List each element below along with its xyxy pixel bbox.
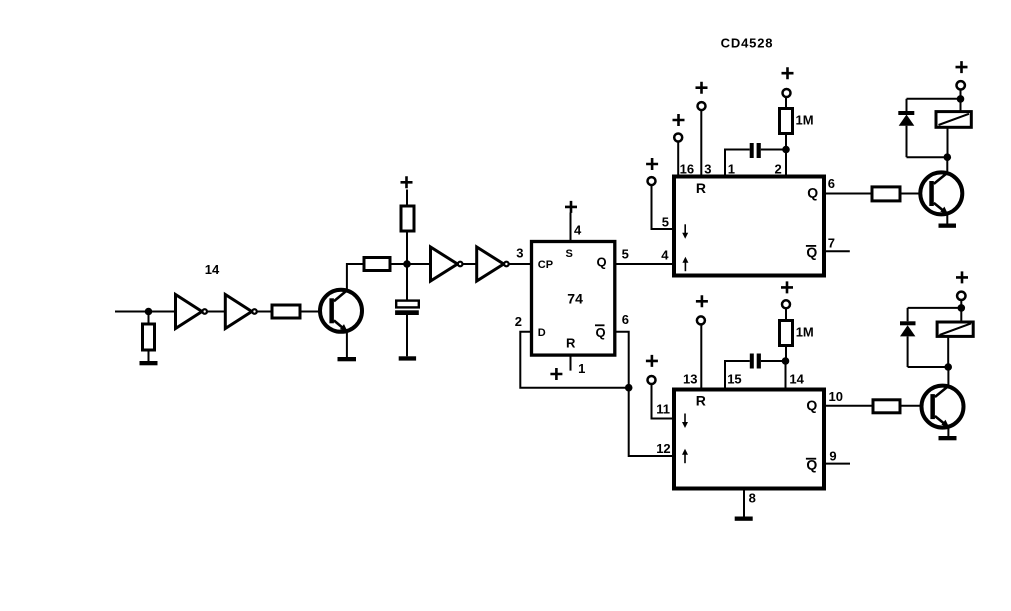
ground GND3 [399, 356, 416, 360]
inverter gate D [477, 247, 509, 281]
diode D2 [900, 308, 916, 367]
svg-text:S: S [566, 248, 573, 260]
pin rising-edge arrow U2b [682, 449, 688, 464]
svg-text:1M: 1M [796, 113, 814, 128]
wire U2b Qbar pin9 stub [824, 463, 850, 465]
wire U2b pin13 [700, 325, 702, 390]
wire D1 top to supply node [907, 98, 961, 100]
svg-text:14: 14 [205, 262, 220, 277]
svg-text:4: 4 [574, 223, 582, 238]
svg-text:R: R [696, 180, 706, 196]
svg-text:Q: Q [806, 397, 817, 413]
wire R3 to node [390, 263, 407, 265]
svg-text:1: 1 [578, 361, 585, 376]
svg-text:16: 16 [680, 161, 694, 176]
resistor R2 [272, 305, 300, 318]
wire Q1 collector up [347, 264, 364, 290]
terminal circle U2a pin5 [648, 177, 656, 185]
wire inv B to R2 [257, 311, 272, 313]
node input junction [145, 308, 153, 316]
op-amp U2b monostable box [674, 390, 824, 489]
svg-text:14: 14 [789, 372, 804, 387]
svg-text:6: 6 [828, 176, 835, 191]
wire inv D to U1 CP [509, 263, 532, 265]
wire U2b pin8 ground lead [743, 489, 745, 517]
node RC U2a [782, 146, 790, 154]
pin Qbar label U2a [806, 244, 818, 260]
transistor Q3 [922, 386, 964, 428]
capacitor C1 [395, 301, 419, 315]
resistor R3 [364, 258, 390, 271]
terminal circle pin3 [698, 102, 706, 110]
capacitor C3 [750, 354, 761, 369]
diode D1 [898, 99, 914, 157]
transistor Q2 [920, 172, 962, 214]
power plus U1 S [565, 201, 577, 213]
power plus U1 R [550, 368, 562, 380]
resistor R4 [401, 206, 414, 231]
wire R6 top lead [785, 309, 787, 321]
wire RL1 bottom pin [947, 127, 949, 157]
wire D2 top to supply node [908, 307, 962, 309]
terminal circle pin16 [674, 134, 682, 142]
pin falling-edge arrow U2a [682, 224, 688, 239]
svg-text:9: 9 [829, 449, 836, 464]
wire C1 to ground [406, 315, 408, 356]
transistor Q1 [320, 290, 362, 333]
wire RL1 top pin [960, 99, 962, 112]
ground GND1 [140, 361, 158, 365]
wire Q2 collector up [946, 157, 948, 173]
relay RL2 [937, 322, 973, 336]
terminal circle pin13 [697, 316, 705, 324]
pin rising-edge arrow U2a [682, 257, 688, 272]
svg-text:Q: Q [597, 255, 607, 270]
svg-text:Q: Q [807, 185, 818, 201]
wire U1 pin4 S to plus [570, 213, 572, 242]
wire supply node to terminal [960, 90, 962, 99]
svg-text:2: 2 [775, 161, 782, 176]
svg-text:4: 4 [661, 247, 669, 262]
power plus pin16 [673, 114, 685, 126]
power plus pin13 [696, 295, 708, 307]
wire Q3 emitter down [947, 427, 949, 436]
svg-text:3: 3 [704, 161, 711, 176]
wire U2b pin15 to C3 [725, 361, 750, 390]
op-amp U2a monostable box [674, 177, 824, 276]
wire U1 D pin2 feedback [520, 332, 628, 388]
ground GND6 [939, 436, 957, 440]
svg-text:8: 8 [749, 491, 756, 506]
wire R5 top lead [785, 98, 787, 109]
svg-text:1: 1 [728, 161, 735, 176]
svg-text:5: 5 [622, 246, 629, 261]
power plus relay 2 [956, 271, 968, 283]
wire RL2 bottom pin [947, 336, 949, 367]
inverter gate C [431, 247, 463, 281]
wire Q3 collector up [947, 367, 949, 386]
power plus V+ R4 [401, 176, 413, 188]
wire Q1 emitter down [346, 331, 348, 357]
wire U2a pin16 [677, 142, 679, 177]
power plus pin5 [646, 158, 658, 170]
resistor R6 1M [780, 321, 793, 346]
svg-text:R: R [566, 336, 576, 351]
node supply junction RL2 [958, 304, 966, 312]
wire node up to R4 [406, 231, 408, 264]
wire U2a pin3 [700, 111, 702, 177]
svg-text:12: 12 [656, 441, 670, 456]
node Qbar feedback junction [625, 384, 633, 392]
power plus pin11 [646, 355, 658, 367]
svg-text:10: 10 [829, 389, 843, 404]
wire R6 bottom lead [785, 346, 787, 362]
ground GND5 [939, 224, 957, 228]
resistor R1 [143, 324, 155, 350]
svg-text:CD4528: CD4528 [721, 36, 774, 51]
pin Qbar label [595, 325, 606, 340]
terminal circle U2b pin11 [648, 376, 656, 384]
ground GND2 [338, 357, 357, 361]
wire supply node to terminal 2 [960, 300, 962, 308]
svg-text:11: 11 [656, 402, 670, 417]
terminal circle R6 [782, 300, 790, 308]
svg-text:Q: Q [596, 325, 606, 340]
resistor R7 [872, 187, 900, 201]
resistor R5 1M [780, 109, 793, 134]
wire collector to diode D1 [907, 156, 948, 158]
wire inv C to inv D [462, 263, 476, 265]
power plus relay 1 [956, 61, 968, 73]
pin Qbar label U2b [806, 457, 818, 473]
svg-text:2: 2 [515, 314, 522, 329]
wire node down to C1 [406, 264, 408, 301]
node Q2 collector junction [944, 153, 952, 161]
ground GND4 pin8 [735, 517, 753, 521]
power plus R6 [781, 281, 793, 293]
svg-text:R: R [696, 392, 706, 408]
wire U1 Qbar pin6 [615, 332, 674, 456]
node RC U2b [782, 357, 790, 365]
wire U2a pin5 [652, 186, 675, 230]
terminal circle relay supply 2 [957, 292, 965, 300]
svg-text:6: 6 [622, 312, 629, 327]
svg-text:15: 15 [727, 372, 741, 387]
node supply junction RL1 [957, 95, 965, 103]
terminal circle relay supply 1 [957, 81, 965, 89]
inverter gate A (first of 14) [176, 295, 208, 329]
wire node to inv C [407, 263, 431, 265]
svg-text:7: 7 [828, 236, 835, 251]
resistor R8 [873, 400, 900, 413]
wire collector to diode D2 [908, 366, 949, 368]
wire node to U2b pin14 [785, 361, 787, 390]
wire R1 bottom lead [148, 350, 150, 361]
capacitor C2 [750, 143, 761, 158]
svg-text:74: 74 [567, 290, 583, 306]
wire U2a pin1 to C2 [725, 150, 750, 177]
pin falling-edge arrow U2b [682, 414, 688, 429]
wire C2 to node [761, 149, 786, 151]
wire R8 to Q3 base [900, 405, 931, 407]
wire input [115, 311, 176, 313]
wire C3 to node [761, 360, 786, 362]
svg-text:13: 13 [683, 372, 697, 387]
wire U1 Q out pin5 [615, 263, 674, 265]
inverter gate B [225, 295, 256, 329]
wire R4 to plus [406, 190, 408, 207]
terminal circle R5 [783, 89, 791, 97]
power plus R5 [782, 67, 794, 79]
wire U2a Qbar pin7 stub [824, 250, 850, 252]
svg-text:3: 3 [516, 245, 523, 260]
wire R2 to Q1 base [300, 311, 329, 313]
wire U2b Q pin10 [824, 405, 873, 407]
wire RL2 top pin [960, 308, 962, 322]
svg-text:D: D [538, 327, 546, 339]
wire R1 top lead [148, 312, 150, 325]
wire U1 pin1 R [570, 355, 572, 371]
relay RL1 [936, 112, 971, 128]
wire node to U2a pin2 [785, 150, 787, 177]
wire U2b pin11 [652, 384, 675, 418]
wire U2a Q pin6 [824, 193, 872, 195]
wire R5 bottom lead [785, 134, 787, 150]
wire R7 to Q2 base [900, 193, 929, 195]
svg-text:1M: 1M [796, 325, 814, 340]
wire inv A to inv B [207, 311, 225, 313]
node collector junction [403, 260, 411, 268]
svg-text:CP: CP [538, 259, 553, 271]
op-amp U1 74 flip-flop box [532, 242, 615, 356]
power plus pin3 [696, 82, 708, 94]
node Q3 collector junction [944, 363, 952, 371]
svg-text:5: 5 [662, 215, 669, 230]
wire Q2 emitter down [946, 214, 948, 224]
